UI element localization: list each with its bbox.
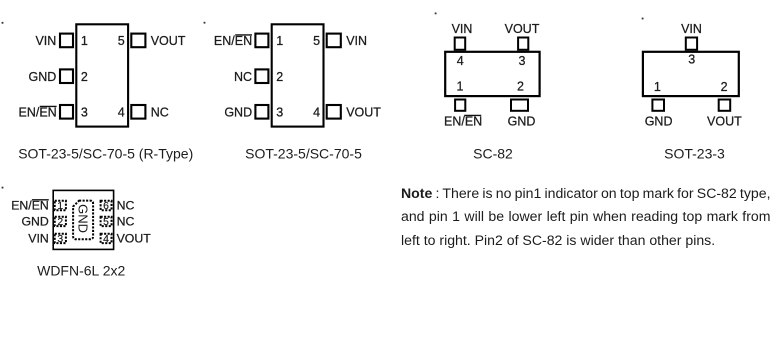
svg-text:NC: NC bbox=[117, 215, 135, 229]
svg-text:SOT-23-5/SC-70-5: SOT-23-5/SC-70-5 bbox=[245, 145, 362, 161]
svg-text:VIN: VIN bbox=[452, 22, 473, 36]
U1 pin 4 lead bbox=[131, 105, 145, 119]
U3 pin 3 lead bbox=[518, 38, 528, 50]
U2 EN overline bbox=[235, 34, 252, 36]
U3 EN overline bbox=[464, 114, 481, 116]
U5 GND thermal pad bbox=[73, 201, 93, 240]
svg-text:NC: NC bbox=[117, 199, 135, 213]
U4 pin 3 lead bbox=[686, 38, 697, 50]
U1 pin 3 lead bbox=[60, 105, 73, 119]
package U1 body SOT-23-5/SC-70-5 (R-Type) bbox=[76, 24, 128, 126]
U5 pad 4 bbox=[101, 234, 112, 243]
svg-text:1: 1 bbox=[654, 80, 661, 94]
U3 pin 4 lead bbox=[455, 38, 466, 50]
svg-text:4: 4 bbox=[118, 105, 125, 119]
U5 pad 1 bbox=[55, 201, 66, 210]
package U4 body SOT-23-3 bbox=[643, 52, 739, 96]
svg-text:VOUT: VOUT bbox=[505, 22, 540, 36]
svg-text:5: 5 bbox=[103, 217, 109, 228]
svg-text:SOT-23-3: SOT-23-3 bbox=[664, 145, 725, 161]
svg-text:VOUT: VOUT bbox=[346, 105, 381, 119]
U1 EN overline bbox=[40, 105, 57, 107]
note text line 1 bbox=[401, 186, 771, 200]
svg-text:3: 3 bbox=[688, 53, 695, 67]
package U3 body SC-82 bbox=[445, 52, 539, 96]
U4 pin 2 lead bbox=[719, 100, 731, 111]
svg-text:2: 2 bbox=[721, 80, 728, 94]
svg-text:3: 3 bbox=[519, 54, 526, 68]
U2 pin 5 lead bbox=[327, 34, 341, 48]
svg-text:NC: NC bbox=[234, 70, 252, 84]
svg-text:2: 2 bbox=[276, 70, 283, 84]
U5 pad 5 bbox=[101, 217, 112, 226]
svg-text:5: 5 bbox=[118, 34, 125, 48]
svg-text:GND: GND bbox=[224, 105, 252, 119]
svg-text:4: 4 bbox=[103, 234, 109, 245]
svg-text:EN/EN: EN/EN bbox=[214, 34, 252, 48]
svg-text:EN/EN: EN/EN bbox=[11, 199, 49, 213]
speck dot 2 bbox=[204, 22, 206, 24]
svg-text:GND: GND bbox=[508, 114, 536, 128]
svg-text:1: 1 bbox=[57, 201, 63, 212]
svg-text:VOUT: VOUT bbox=[117, 231, 152, 245]
package U2 body SOT-23-5/SC-70-5 bbox=[272, 24, 324, 126]
svg-text:3: 3 bbox=[57, 234, 63, 245]
svg-text:4: 4 bbox=[313, 105, 320, 119]
U3 pin 1 lead bbox=[455, 100, 465, 111]
svg-text:EN/EN: EN/EN bbox=[18, 105, 56, 119]
svg-text:VIN: VIN bbox=[346, 34, 367, 48]
note text line 2 bbox=[401, 209, 771, 223]
svg-text:VOUT: VOUT bbox=[151, 34, 186, 48]
svg-text:EN/EN: EN/EN bbox=[444, 114, 482, 128]
U5 EN overline bbox=[32, 199, 49, 201]
U1 pin 5 lead bbox=[131, 34, 145, 48]
svg-text:2: 2 bbox=[517, 80, 524, 94]
svg-text:2: 2 bbox=[81, 70, 88, 84]
svg-text:2: 2 bbox=[57, 217, 63, 228]
speck dot 4 bbox=[642, 18, 644, 20]
svg-text:4: 4 bbox=[457, 54, 464, 68]
svg-text:GND: GND bbox=[29, 70, 57, 84]
svg-text:SC-82: SC-82 bbox=[473, 145, 513, 161]
U1 pin 1 lead bbox=[60, 34, 73, 48]
U5 pad 2 bbox=[55, 217, 66, 226]
svg-text:GND: GND bbox=[76, 204, 91, 233]
svg-text:1: 1 bbox=[457, 80, 464, 94]
svg-text:6: 6 bbox=[103, 201, 109, 212]
svg-text:VIN: VIN bbox=[681, 22, 702, 36]
U1 pin 2 lead bbox=[60, 69, 73, 83]
svg-text:WDFN-6L 2x2: WDFN-6L 2x2 bbox=[37, 262, 125, 278]
note text line 3 bbox=[401, 233, 771, 247]
svg-text:GND: GND bbox=[645, 114, 673, 128]
speck dot 5 bbox=[2, 187, 4, 189]
svg-text:NC: NC bbox=[151, 105, 169, 119]
U5 pad 6 bbox=[101, 201, 112, 210]
svg-text:3: 3 bbox=[81, 105, 88, 119]
svg-text:3: 3 bbox=[276, 105, 283, 119]
speck dot 1 bbox=[2, 22, 4, 24]
svg-text:GND: GND bbox=[21, 215, 48, 229]
svg-text:1: 1 bbox=[81, 34, 88, 48]
package U5 body WDFN-6L 2x2 bbox=[53, 190, 113, 249]
svg-text:VIN: VIN bbox=[35, 34, 56, 48]
U5 pad 3 bbox=[55, 234, 66, 243]
U2 pin 4 lead bbox=[327, 105, 341, 119]
speck dot 3 bbox=[435, 13, 437, 15]
svg-text:VIN: VIN bbox=[28, 231, 49, 245]
U2 pin 2 lead bbox=[255, 69, 268, 83]
U4 pin 1 lead bbox=[652, 100, 664, 111]
svg-text:1: 1 bbox=[276, 34, 283, 48]
svg-text:5: 5 bbox=[313, 34, 320, 48]
svg-text:SOT-23-5/SC-70-5 (R-Type): SOT-23-5/SC-70-5 (R-Type) bbox=[18, 145, 193, 161]
U2 pin 3 lead bbox=[255, 105, 268, 119]
U3 pin 2 lead wide bbox=[511, 100, 528, 111]
U2 pin 1 lead bbox=[255, 34, 268, 48]
svg-text:VOUT: VOUT bbox=[707, 114, 742, 128]
